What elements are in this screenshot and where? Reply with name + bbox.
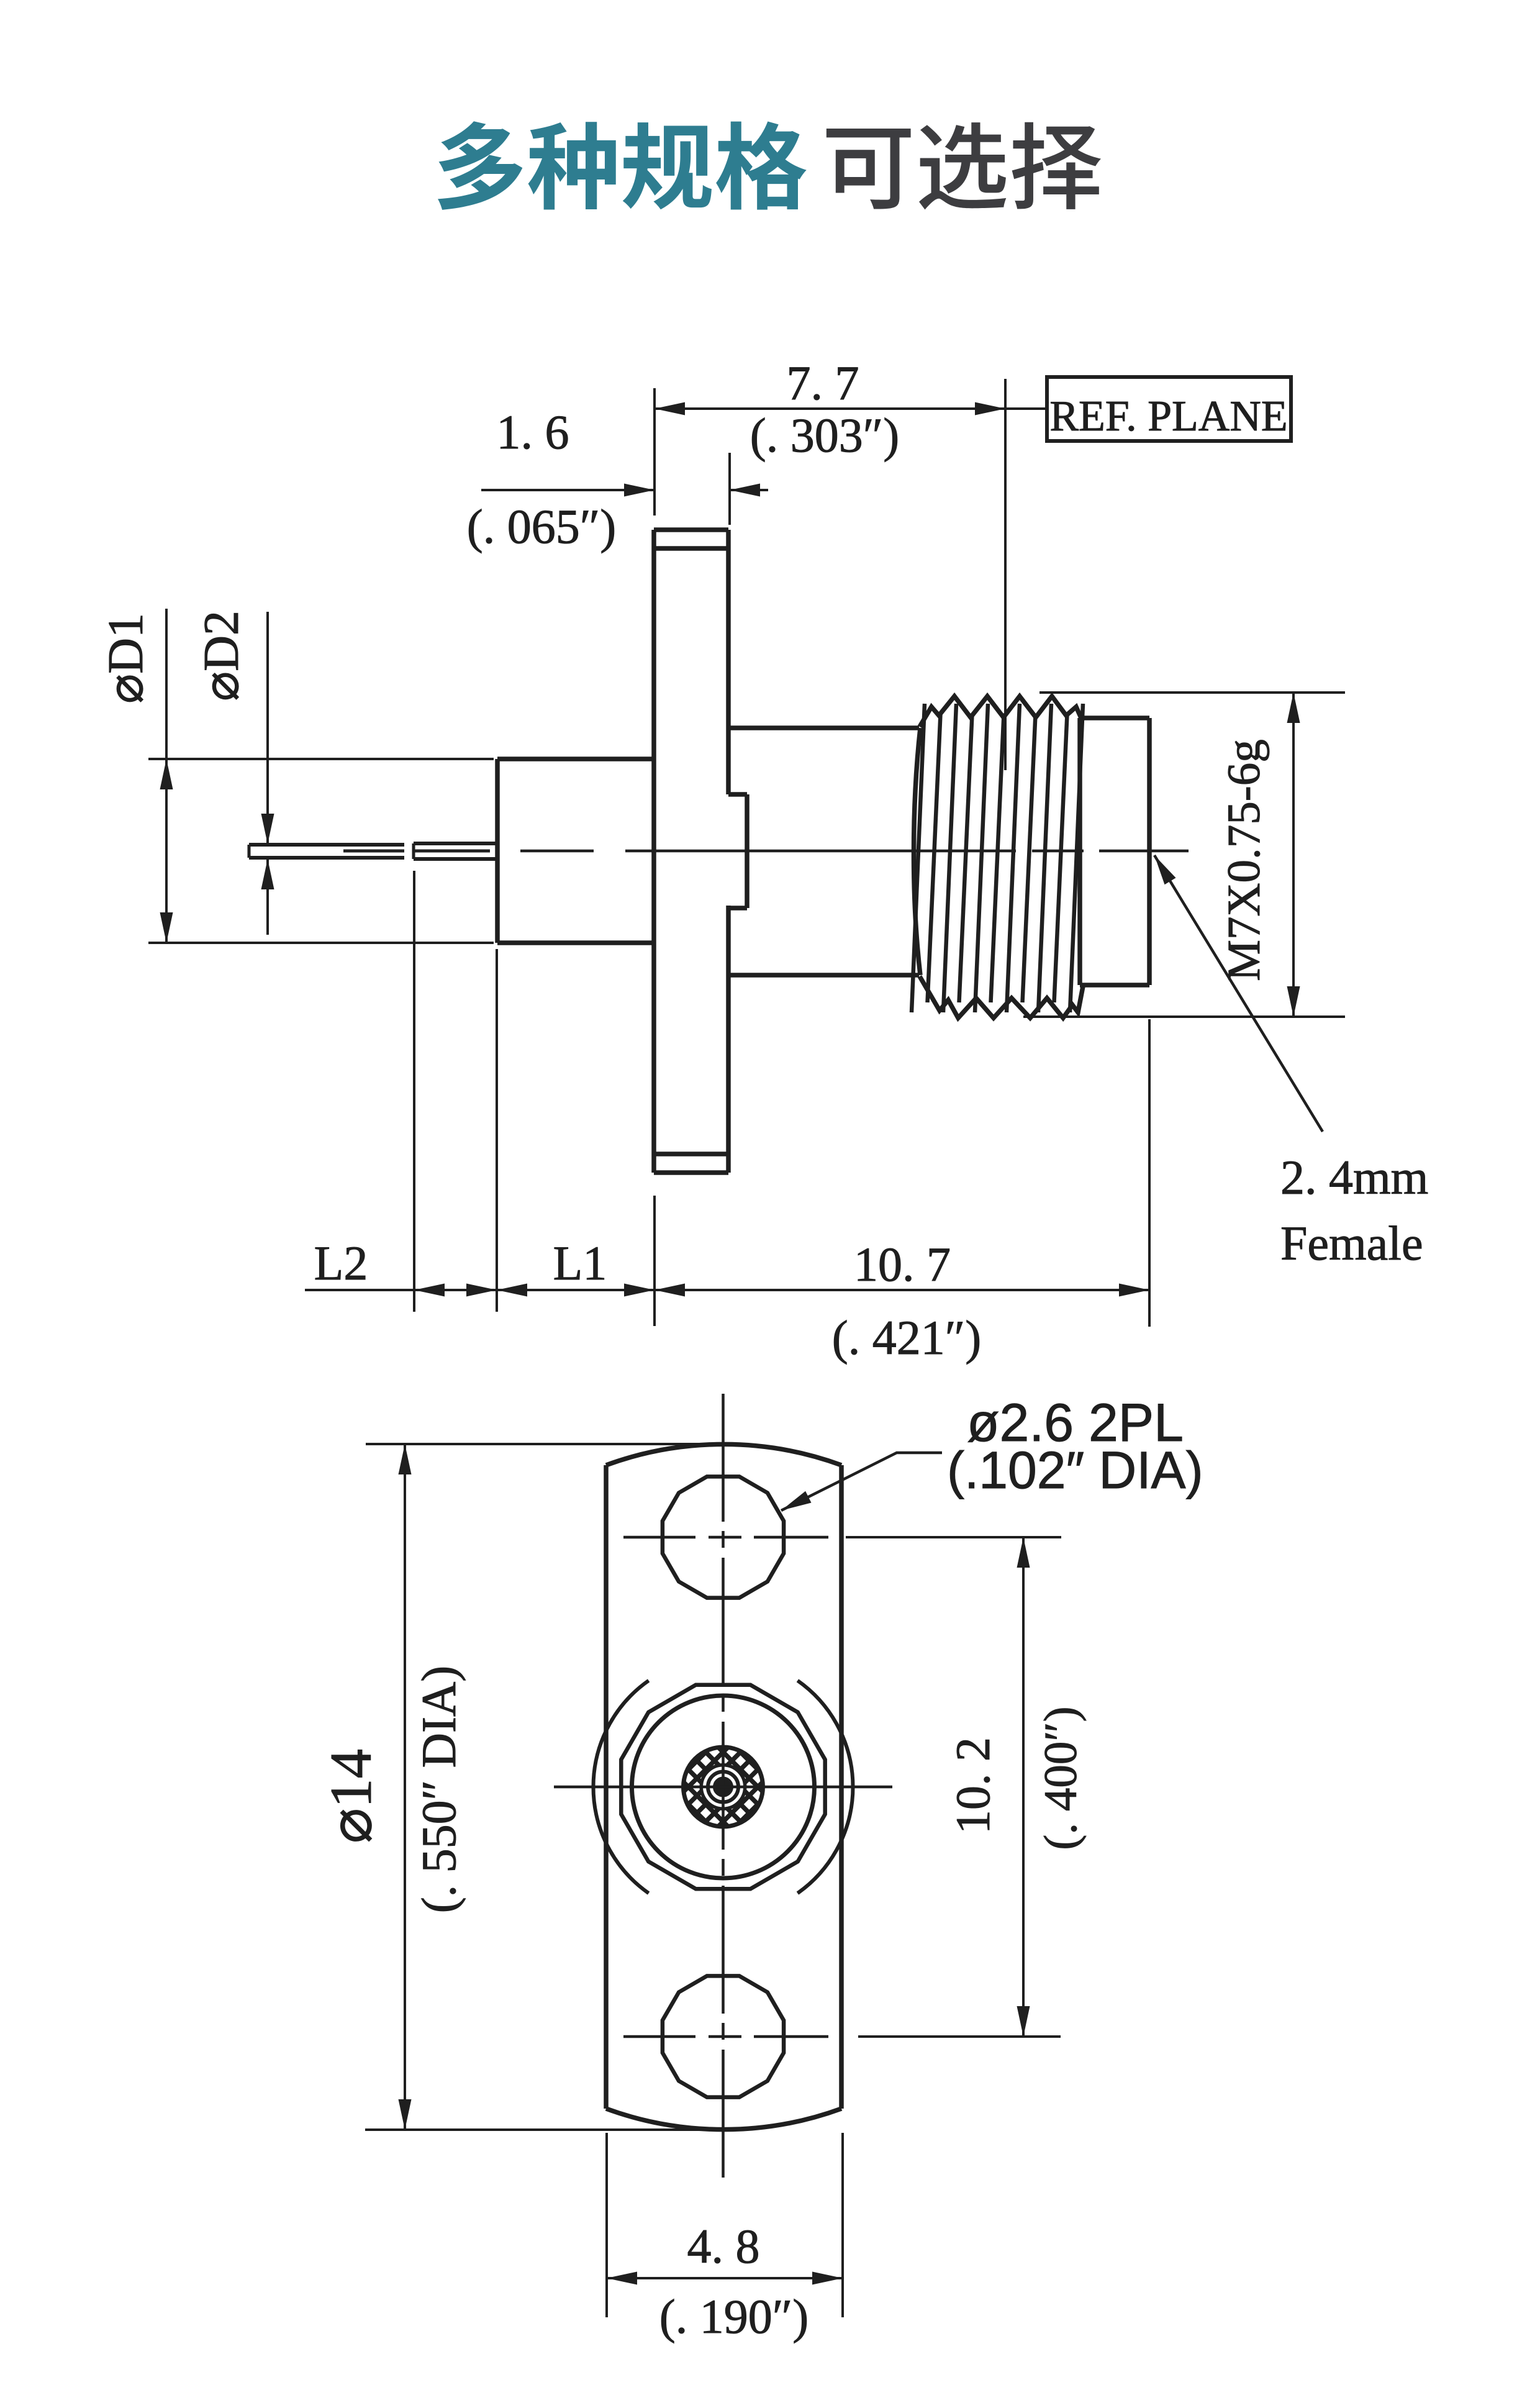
svg-text:7. 7: 7. 7 xyxy=(787,356,859,410)
svg-text:(. 065″): (. 065″) xyxy=(467,499,616,553)
svg-text:REF. PLANE: REF. PLANE xyxy=(1049,393,1287,440)
svg-text:L1: L1 xyxy=(553,1236,607,1290)
svg-text:10. 7: 10. 7 xyxy=(854,1237,951,1291)
svg-text:(. 400″): (. 400″) xyxy=(1035,1706,1087,1850)
svg-text:(. 190″): (. 190″) xyxy=(659,2289,808,2343)
svg-text:⌀D2: ⌀D2 xyxy=(194,611,249,701)
svg-text:Female: Female xyxy=(1280,1216,1423,1270)
svg-text:(.102″ DIA): (.102″ DIA) xyxy=(947,1441,1203,1499)
svg-text:10. 2: 10. 2 xyxy=(946,1737,1000,1834)
svg-text:M7X0.75-6g: M7X0.75-6g xyxy=(1218,739,1270,981)
svg-text:(. 303″): (. 303″) xyxy=(750,408,899,462)
svg-text:⌀14: ⌀14 xyxy=(318,1749,384,1843)
svg-text:1. 6: 1. 6 xyxy=(497,405,569,459)
svg-text:L2: L2 xyxy=(314,1236,368,1290)
svg-text:(. 550″ DIA): (. 550″ DIA) xyxy=(412,1666,466,1914)
svg-text:(. 421″): (. 421″) xyxy=(832,1311,981,1365)
svg-text:4. 8: 4. 8 xyxy=(687,2219,760,2273)
svg-text:⌀D1: ⌀D1 xyxy=(99,613,153,704)
svg-text:2. 4mm: 2. 4mm xyxy=(1280,1150,1428,1204)
